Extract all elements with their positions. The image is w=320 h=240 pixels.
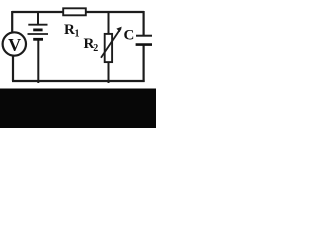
wire top (right segment, from R1 to top-right corner) [86,11,144,13]
wire (battery branch, top wire down to battery) [37,12,39,24]
wire (R2 branch, top wire down to R2 box) [108,12,110,34]
wire (battery bottom down to bottom wire) [37,41,39,84]
wire left (top-left corner down to voltmeter) [11,11,13,33]
svg-text:1: 1 [75,29,80,40]
svg-text:C: C [124,27,135,43]
voltmeter V (circle with V) [3,32,26,55]
svg-text:2: 2 [93,43,98,54]
wire left (voltmeter down to bottom-left corner) [12,56,14,81]
svg-text:R: R [64,22,75,38]
black censor bar at bottom [0,89,156,129]
label R1 [64,22,80,40]
wire bottom [12,80,145,82]
rheostat R2 (vertical box) [105,34,112,62]
wire right (top-right corner down to capacitor) [143,11,145,35]
wire top (left segment, from top-left corner to R1) [12,11,63,13]
battery (two cells) [28,25,49,40]
wire right (capacitor down to bottom-right corner) [143,45,145,82]
arrow of rheostat R2 [101,27,122,58]
resistor R1 (box on top wire) [63,8,86,15]
label C [124,27,135,43]
wire (R2 box down to bottom wire) [108,63,110,84]
capacitor C (plates in right edge) [136,36,152,45]
svg-text:V: V [8,35,21,55]
label R2 [84,36,99,54]
